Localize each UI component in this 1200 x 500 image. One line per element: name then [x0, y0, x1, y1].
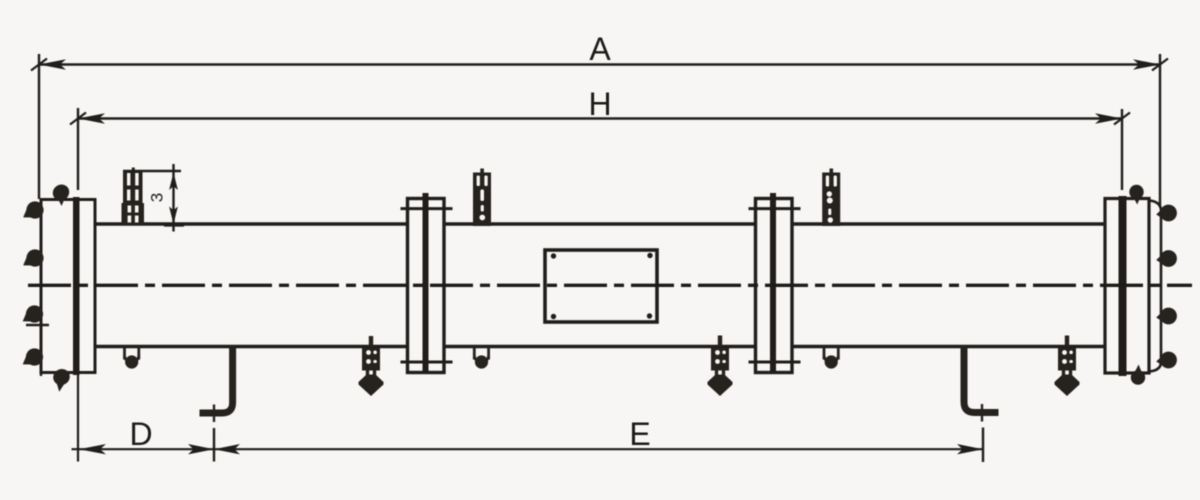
right bolt B5 [1156, 205, 1177, 222]
flange F2 bolt tick top [749, 207, 801, 210]
centerline [28, 284, 1192, 287]
dim A extension line left [38, 54, 40, 199]
top nozzle N1 body [122, 168, 145, 225]
dim D arrow left [79, 444, 106, 454]
dim E arrow right [957, 444, 983, 454]
dim A arrow right [1133, 59, 1160, 69]
dim H tick left [70, 113, 86, 125]
support leg L1 [200, 346, 233, 413]
left bolt tick [26, 324, 49, 326]
flange F1 bolt tick bottom [401, 361, 453, 364]
nozzle flange pair F2 body [756, 199, 793, 373]
nozzle N1 dim vertical [172, 164, 174, 232]
bottom stub S3 [824, 347, 838, 369]
drain V3 [1055, 336, 1080, 397]
dim A tick right [1152, 59, 1168, 71]
dim H tick right [1114, 113, 1130, 125]
bottom stub S2 [474, 347, 488, 369]
baffle dot 3 [551, 314, 556, 319]
flange F1 gasket [423, 193, 429, 373]
right channel cover plate [1105, 199, 1149, 374]
svg-text:3: 3 [147, 193, 166, 202]
dim A line [39, 63, 1160, 65]
drain V2 [708, 336, 733, 397]
dim D extension line [77, 374, 79, 462]
left bolt B1 [23, 201, 43, 218]
leg L2 anchor tick [981, 404, 983, 422]
top nozzle N3 body [822, 169, 840, 227]
left channel cover plate [41, 200, 95, 373]
left bolt bottom angled [50, 366, 72, 392]
dim junction tick [213, 428, 215, 462]
svg-text:D: D [129, 416, 152, 452]
shell top line [94, 222, 1106, 225]
dim DE line [72, 448, 984, 450]
leg L1 anchor tick [213, 405, 215, 423]
flange F2 gasket [770, 193, 776, 373]
baffle dot 4 [647, 313, 652, 318]
right cover gasket [1119, 196, 1127, 376]
dim A extension line right [1159, 54, 1161, 207]
top nozzle N2 body [473, 169, 491, 227]
support leg L2 [964, 346, 999, 413]
dim H arrow left [78, 113, 105, 123]
dim D arrow right [188, 444, 214, 454]
dim H extension line right [1121, 109, 1123, 190]
dim E arrow left [214, 444, 240, 454]
dim H extension line left [77, 108, 79, 190]
left cover gasket [73, 197, 80, 375]
dim H line [78, 117, 1122, 119]
left cover bolt line [40, 199, 42, 376]
svg-text:A: A [589, 31, 611, 67]
left bolt B4 [23, 348, 43, 365]
baffle dot 1 [551, 253, 556, 258]
nozzle flange pair F1 body [408, 199, 445, 373]
dim A tick left [31, 59, 47, 71]
left bolt top angled [50, 181, 73, 206]
shell bottom line [94, 345, 1106, 348]
nozzle N1 dim arrow down [169, 207, 178, 225]
dim E end tick [982, 428, 984, 463]
nozzle N1 dim arrow up [169, 173, 178, 191]
left bolt B2 [23, 249, 43, 266]
flange F2 bolt tick bottom [749, 361, 801, 364]
right bolt bottom dome [1131, 365, 1145, 385]
baffle plate rectangle [545, 250, 657, 322]
right bolt B7 [1156, 308, 1177, 325]
nozzle N1 dim top line [123, 170, 181, 172]
flange F1 bolt tick top [401, 207, 453, 210]
svg-text:H: H [588, 86, 611, 122]
bottom stub S1 [125, 347, 139, 369]
dim A arrow left [39, 59, 66, 69]
baffle dot 2 [647, 253, 652, 258]
right bolt B8 [1156, 352, 1177, 369]
right bolt line [1149, 201, 1161, 372]
right bolt B6 [1156, 250, 1177, 267]
nozzle N1 dim tick bottom [164, 224, 184, 226]
right bolt top dome [1129, 185, 1143, 205]
drain V1 [359, 336, 384, 396]
dim H arrow right [1095, 113, 1122, 123]
svg-text:E: E [629, 416, 650, 452]
left bolt B3 [23, 305, 43, 322]
